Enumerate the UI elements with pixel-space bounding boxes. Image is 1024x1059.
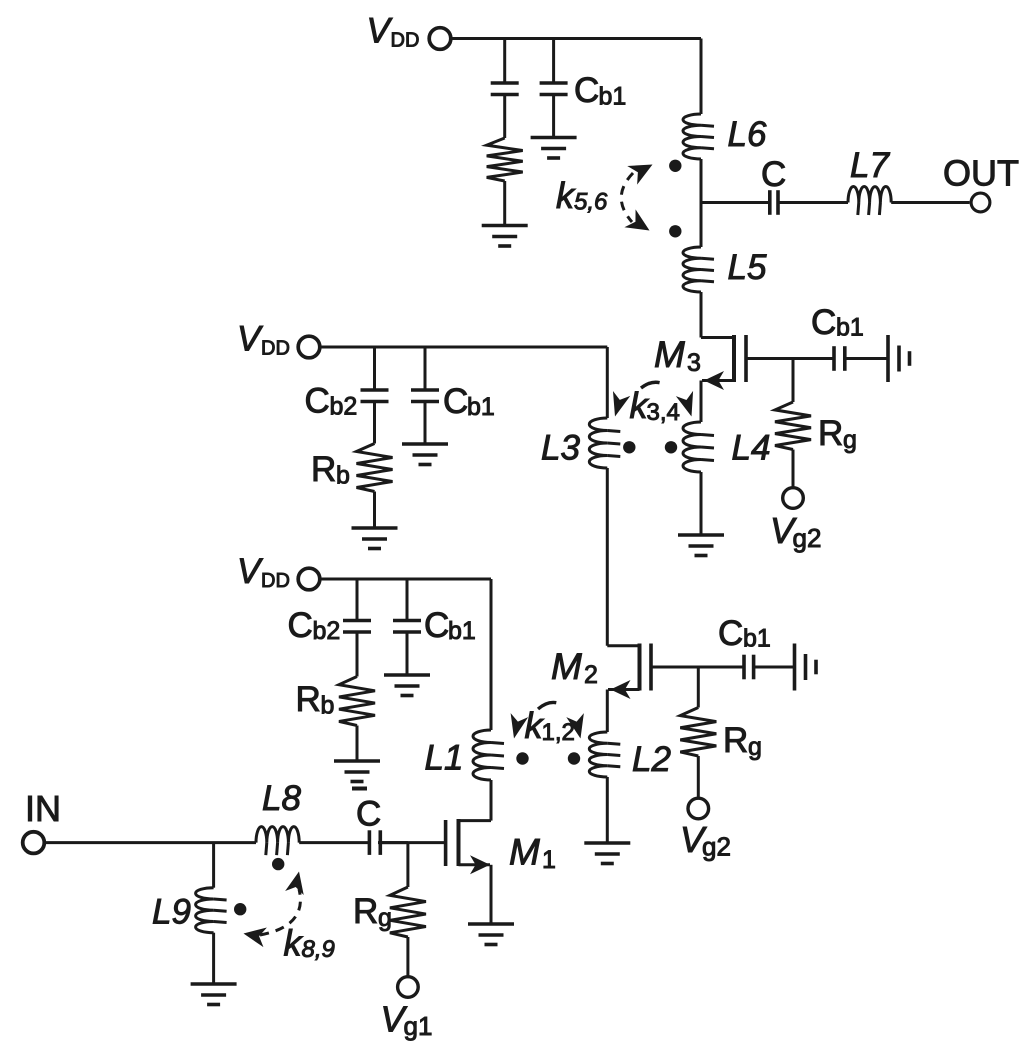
- svg-text:C: C: [811, 303, 836, 342]
- svg-text:2: 2: [584, 661, 598, 689]
- svg-text:8,9: 8,9: [302, 936, 335, 963]
- svg-text:5,6: 5,6: [574, 189, 608, 216]
- svg-text:g1: g1: [404, 1011, 433, 1041]
- svg-text:C: C: [443, 382, 468, 421]
- svg-text:L6: L6: [728, 115, 767, 154]
- svg-text:R: R: [818, 414, 843, 453]
- svg-text:b: b: [321, 692, 335, 720]
- svg-text:1: 1: [542, 846, 556, 874]
- svg-text:C: C: [305, 382, 330, 421]
- svg-text:C: C: [718, 614, 743, 653]
- svg-text:V: V: [367, 12, 394, 51]
- svg-text:g: g: [378, 904, 392, 932]
- svg-text:R: R: [311, 450, 336, 489]
- svg-text:R: R: [353, 892, 378, 931]
- svg-text:M: M: [551, 646, 582, 687]
- svg-text:g: g: [748, 733, 762, 761]
- svg-text:DD: DD: [261, 570, 290, 592]
- svg-text:R: R: [296, 680, 321, 719]
- svg-text:L2: L2: [632, 740, 671, 779]
- svg-text:L1: L1: [425, 739, 464, 778]
- svg-text:b2: b2: [313, 617, 341, 645]
- svg-text:C: C: [356, 795, 381, 834]
- svg-text:V: V: [237, 552, 264, 591]
- svg-text:C: C: [424, 606, 449, 645]
- svg-text:DD: DD: [261, 338, 290, 360]
- svg-text:3,4: 3,4: [647, 399, 680, 426]
- svg-text:g2: g2: [702, 832, 731, 862]
- svg-text:L8: L8: [262, 779, 301, 818]
- svg-text:L4: L4: [732, 429, 771, 468]
- svg-text:b1: b1: [599, 83, 627, 111]
- svg-text:b1: b1: [743, 625, 771, 653]
- svg-text:L9: L9: [152, 893, 191, 932]
- svg-text:1,2: 1,2: [542, 719, 575, 746]
- svg-text:b1: b1: [836, 314, 864, 342]
- svg-text:R: R: [723, 721, 748, 760]
- svg-text:k: k: [556, 175, 576, 216]
- svg-text:b: b: [336, 462, 350, 490]
- svg-text:g2: g2: [793, 523, 822, 553]
- svg-text:C: C: [574, 71, 599, 110]
- svg-text:k: k: [284, 923, 304, 964]
- svg-text:C: C: [288, 606, 313, 645]
- svg-text:b1: b1: [448, 617, 476, 645]
- svg-text:DD: DD: [391, 30, 420, 52]
- svg-text:V: V: [237, 320, 264, 359]
- svg-text:M: M: [654, 334, 685, 375]
- svg-text:g: g: [843, 426, 857, 454]
- svg-text:C: C: [761, 155, 786, 194]
- svg-text:3: 3: [687, 349, 701, 377]
- svg-text:b2: b2: [330, 393, 358, 421]
- svg-text:IN: IN: [25, 788, 61, 829]
- svg-text:L3: L3: [541, 429, 580, 468]
- svg-text:M: M: [509, 832, 540, 873]
- svg-text:L7: L7: [850, 146, 890, 185]
- svg-text:L5: L5: [728, 248, 767, 287]
- svg-text:OUT: OUT: [943, 153, 1019, 194]
- svg-text:b1: b1: [467, 393, 495, 421]
